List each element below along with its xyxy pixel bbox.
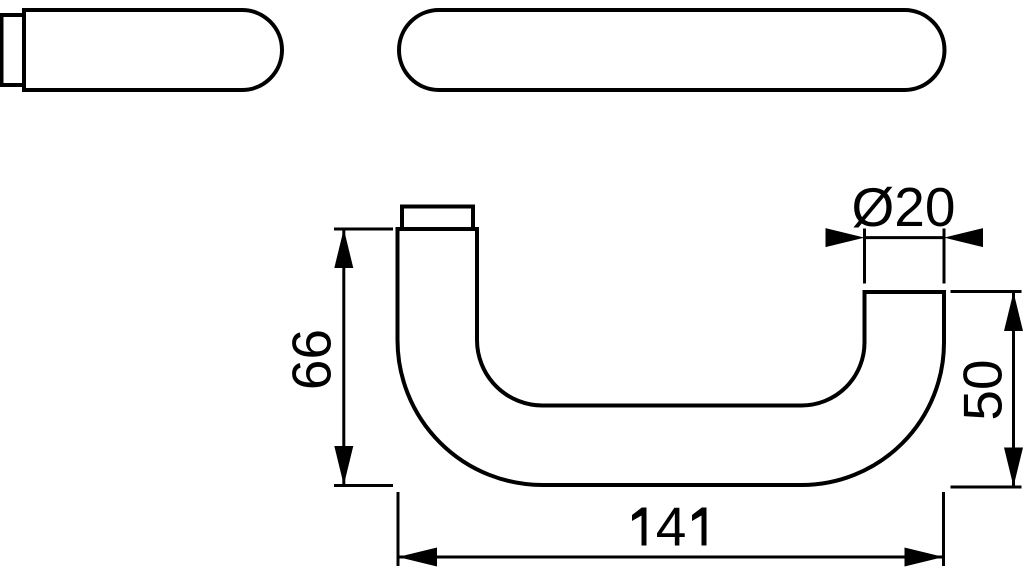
dim 141: value label first digit 1 — [632, 508, 647, 546]
dim 66: bottom extension line — [334, 484, 393, 487]
dim Ø20: left outside arrowhead — [826, 228, 865, 247]
dim 66: dimension line — [342, 229, 345, 485]
front view: handle outline — [398, 229, 945, 485]
front view: neck collar — [402, 207, 473, 230]
dim 141: right arrowhead — [905, 548, 944, 567]
dim Ø20: right extension line — [943, 229, 946, 284]
dim 141: value label second digit 1 — [692, 508, 707, 546]
dim 141: right extension line — [942, 492, 945, 566]
dim Ø20: right outside arrowhead — [944, 228, 983, 247]
dim 66: top extension line — [334, 228, 393, 231]
svg-text:Ø20: Ø20 — [852, 176, 956, 238]
dim 50: top extension line — [951, 290, 1022, 293]
dim 141: left extension line — [397, 492, 400, 566]
dim Ø20: dimension line — [865, 236, 945, 239]
dim 50: bottom extension line — [951, 486, 1022, 489]
dim 50: top arrowhead — [1004, 292, 1023, 331]
side view: lever grip body — [24, 10, 282, 90]
svg-text:50: 50 — [952, 359, 1014, 420]
dim Ø20: left extension line — [863, 229, 866, 284]
dim 66: top arrowhead — [334, 229, 353, 268]
dim 50: bottom arrowhead — [1004, 448, 1023, 487]
dim 66: bottom arrowhead — [334, 446, 353, 485]
side view: spindle boss — [2, 15, 25, 85]
dim 50: dimension line — [1012, 292, 1015, 487]
dim 141: left arrowhead — [398, 548, 437, 567]
svg-text:66: 66 — [281, 329, 343, 390]
top view: lever outline — [399, 10, 945, 90]
svg-text:4: 4 — [656, 496, 687, 558]
dim 141: dimension line — [398, 556, 944, 559]
